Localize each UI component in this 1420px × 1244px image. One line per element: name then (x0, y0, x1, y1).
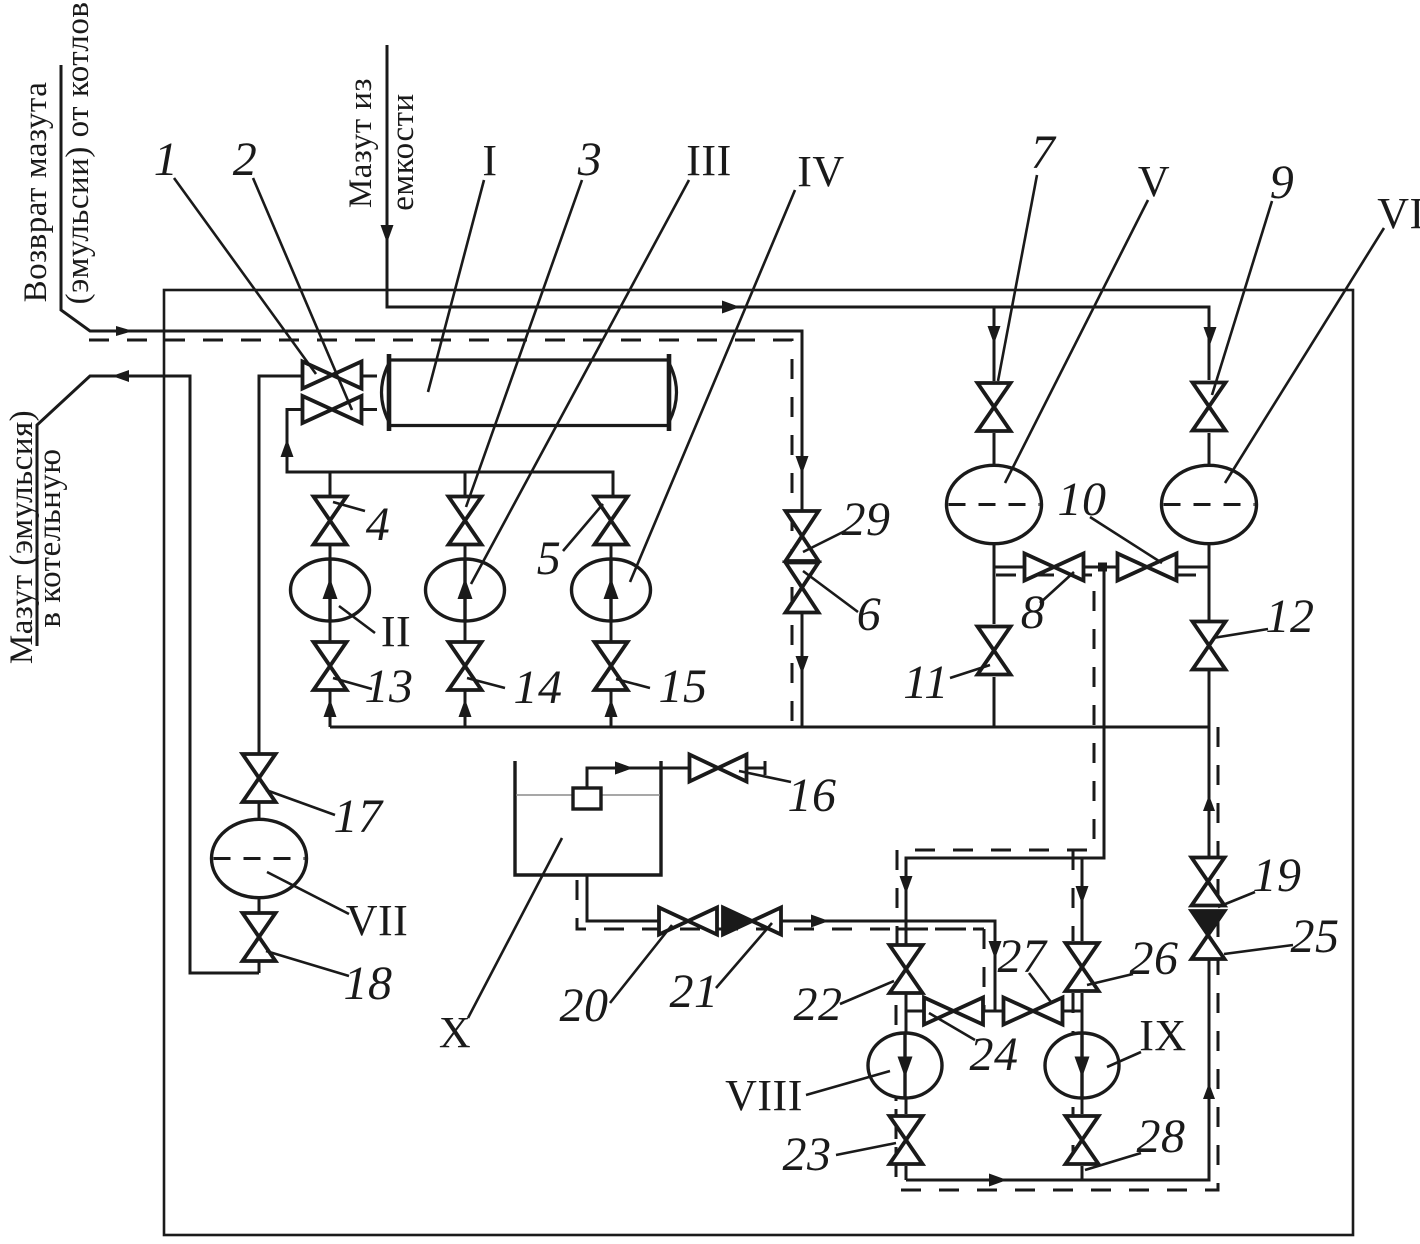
flow arrow outlet left (112, 370, 129, 382)
wire IX branch drop (1081, 858, 1084, 941)
svg-text:VII: VII (346, 896, 409, 945)
wire IX feed drop (906, 567, 1104, 945)
label pointer 16 (739, 771, 791, 782)
valve 12 (1193, 622, 1226, 670)
valve 26 (1066, 943, 1099, 991)
wire dashed tank VI leg (1176, 574, 1209, 577)
flow arrow 24-27 drop down (989, 941, 1002, 959)
svg-text:26: 26 (1130, 932, 1179, 985)
flow arrow bottom line right (989, 1174, 1007, 1187)
flow arrow IX feed down (1076, 886, 1089, 904)
pump IX (1045, 1033, 1119, 1098)
flow arrow branch2 up (459, 699, 472, 717)
flow arrow branch3 up (605, 699, 618, 717)
valve 16 (690, 755, 747, 782)
pump VIII (868, 1033, 942, 1098)
wire pump IX to valve 28 (1081, 1098, 1084, 1114)
valve 29 (786, 511, 819, 561)
valve 5 (595, 497, 628, 545)
valve 17 (243, 754, 276, 802)
svg-text:V: V (1138, 157, 1170, 206)
label pointer III (471, 180, 689, 584)
tank VI (1162, 465, 1257, 543)
label pointer 10 (1090, 517, 1162, 563)
svg-text:15: 15 (659, 660, 708, 713)
valve 2 (303, 396, 362, 423)
label pointer 14 (467, 678, 505, 688)
wire branch3 arrow stub (610, 700, 613, 727)
pump II-1 (291, 559, 370, 621)
valve 28 (1066, 1116, 1099, 1164)
pump II-3 (572, 559, 651, 621)
label pointer 17 (266, 790, 335, 815)
wire exchanger stub valve2 (361, 408, 390, 411)
svg-text:18: 18 (344, 957, 393, 1010)
wire outlet to boiler room (37, 376, 259, 973)
wire pump branch 3 (610, 497, 613, 700)
tank X liquid level (516, 794, 660, 796)
tank VII (212, 819, 307, 897)
wire dashed tank V leg (897, 575, 1094, 945)
label pointer 28 (1085, 1153, 1141, 1170)
wire lower manifold (330, 726, 1209, 729)
flow arrow return in right (116, 326, 133, 336)
valve 21 (723, 908, 781, 935)
wire valve 28 outlet (1081, 1166, 1084, 1180)
wire valves 8-10 crossover (994, 566, 1209, 569)
valve 19 (1192, 858, 1225, 906)
svg-text:Возврат мазута: Возврат мазута (18, 82, 54, 303)
wire valve 29-6 mid bar (785, 560, 820, 563)
flow arrow 29 drop down lower (796, 656, 809, 674)
label pointer VI (1225, 228, 1384, 483)
valve unnamed middle branch (449, 497, 482, 545)
wire pump branch 1 (329, 472, 332, 727)
wire return header from boilers (61, 65, 802, 727)
valve 11 (978, 627, 1011, 675)
svg-text:3: 3 (577, 133, 603, 186)
label pointer 29 (803, 531, 845, 552)
label pointer 13 (333, 678, 372, 689)
label pointer I (428, 180, 484, 392)
valve 4 (314, 497, 347, 545)
flow arrow float line right (redraw) (615, 762, 633, 775)
svg-text:I: I (482, 136, 497, 185)
wire tank X outlet line (587, 875, 660, 921)
svg-text:(эмульсии) от котлов: (эмульсии) от котлов (60, 2, 96, 305)
flow arrow feed to VI down (1204, 327, 1217, 345)
flow arrow 29 drop down upper (796, 456, 809, 474)
flow arrow riser up low (1203, 795, 1215, 811)
svg-text:7: 7 (1031, 126, 1057, 179)
svg-text:Мазут из: Мазут из (343, 78, 379, 208)
valve 23 (890, 1116, 923, 1164)
label pointer 22 (840, 981, 894, 1004)
svg-text:VIII: VIII (725, 1071, 803, 1120)
svg-text:IX: IX (1139, 1011, 1186, 1060)
flow arrow feed down (381, 225, 394, 243)
svg-text:24: 24 (970, 1028, 1019, 1081)
wire valve 23 outlet (905, 1166, 908, 1180)
label pointer V (1005, 200, 1148, 483)
tank X (515, 761, 661, 875)
label pointer X (468, 838, 562, 1018)
valve 6 (786, 563, 819, 613)
wire dashed IX jog (1072, 850, 1075, 941)
label pointer 2 (253, 178, 352, 410)
label pointer 8 (1040, 572, 1074, 603)
svg-text:21: 21 (670, 965, 719, 1018)
svg-text:11: 11 (903, 656, 948, 709)
flow arrow feed right (722, 301, 740, 314)
tank X float switch (573, 788, 601, 809)
svg-text:9: 9 (1270, 156, 1295, 209)
tank V (947, 465, 1042, 543)
label pointer 19 (1218, 892, 1255, 907)
svg-text:10: 10 (1058, 473, 1107, 526)
svg-text:VI: VI (1377, 189, 1420, 238)
wire dashed tank X outlet (577, 880, 984, 1011)
wire valve 20-21 outlet line (779, 921, 995, 1011)
label pointer 18 (266, 951, 349, 976)
wire tank V column lower (993, 677, 996, 727)
svg-text:27: 27 (998, 930, 1049, 983)
svg-text:X: X (439, 1008, 471, 1057)
flow arrow valve2 riser up (281, 439, 294, 457)
label pointer 7 (998, 175, 1037, 381)
wire pump branch 2 (464, 472, 467, 700)
valve 18 (243, 913, 276, 961)
label pointer 3 (466, 180, 582, 507)
flow arrow float line right (615, 762, 633, 775)
wire tank X float line (587, 768, 766, 788)
flow arrow riser up bottom (1203, 1083, 1215, 1099)
valve 7 (978, 383, 1011, 431)
wire dashed right riser (896, 727, 1218, 1190)
svg-text:1: 1 (154, 133, 179, 186)
svg-text:IV: IV (797, 147, 844, 196)
plant boundary border (164, 290, 1353, 1235)
svg-text:19: 19 (1253, 849, 1302, 902)
valve 10 (1118, 554, 1177, 581)
svg-text:14: 14 (514, 661, 563, 714)
svg-text:17: 17 (334, 790, 385, 843)
svg-text:2: 2 (233, 133, 258, 186)
valve 13 (314, 642, 347, 690)
label pointer II (339, 606, 375, 633)
wire pump VIII to valve 23 (905, 1098, 908, 1114)
flow arrow feed to V down (988, 326, 1001, 344)
wire valve1 line to pump VII branch (259, 376, 302, 973)
label pointer 21 (716, 923, 772, 988)
valve 9 (1193, 383, 1226, 431)
wire dashed return header (89, 340, 792, 727)
svg-text:22: 22 (794, 978, 843, 1031)
label pointer 6 (803, 571, 858, 612)
wire valve2 down leg and upper manifold (287, 410, 613, 498)
label pointer 23 (836, 1143, 896, 1155)
wire dashed IX suction (1072, 993, 1075, 1166)
svg-text:4: 4 (366, 498, 391, 551)
wire crossover 24-27 (906, 1010, 1082, 1013)
wire valve 22 to pump VIII (905, 993, 908, 1033)
svg-text:25: 25 (1291, 910, 1340, 963)
flow arrow branch1 up (324, 699, 337, 717)
label pointer 11 (950, 665, 990, 678)
valve 24 (924, 998, 983, 1025)
wire dashed VIII suction (895, 1033, 898, 1166)
label pointer VIII (806, 1071, 890, 1095)
label pointer 15 (616, 679, 650, 688)
wire tank V column (993, 433, 996, 624)
svg-text:III: III (686, 136, 731, 185)
label pointer 4 (333, 502, 365, 511)
svg-text:емкости: емкости (385, 93, 421, 210)
junction node valves 8-10 (1098, 563, 1107, 572)
label pointer 5 (563, 504, 603, 551)
svg-text:5: 5 (537, 532, 562, 585)
label pointer IX (1107, 1052, 1141, 1067)
svg-text:6: 6 (857, 588, 882, 641)
label pointer 1 (174, 178, 316, 374)
pump II-2 (426, 559, 505, 621)
wire exchanger stub valve1 (361, 375, 390, 378)
label pointer IV (630, 190, 795, 582)
wire fuel feed from tank (387, 45, 1209, 380)
valve 8 (1025, 554, 1084, 581)
valve 15 (595, 642, 628, 690)
valve 22 (890, 945, 923, 993)
heat exchanger I (377, 352, 683, 433)
svg-text:20: 20 (560, 979, 609, 1032)
svg-text:II: II (381, 607, 411, 656)
svg-text:13: 13 (365, 660, 414, 713)
svg-text:в котельную: в котельную (32, 448, 68, 627)
svg-text:23: 23 (783, 1128, 832, 1181)
wire tank VI column upper (1208, 433, 1211, 620)
valve 1 (303, 362, 362, 389)
svg-text:12: 12 (1266, 590, 1315, 643)
svg-text:29: 29 (842, 493, 891, 546)
label pointer 27 (1029, 973, 1051, 1002)
valve 20 (659, 908, 717, 935)
label pointer 9 (1212, 201, 1272, 395)
pipe end tick after valve 16 (764, 761, 767, 775)
wire tank VI column lower (1208, 671, 1211, 858)
label pointer 24 (929, 1013, 975, 1040)
valve 27 (1004, 998, 1063, 1025)
wire feed branch to valve 7 (993, 307, 996, 381)
label pointer 26 (1087, 974, 1133, 985)
wire right riser (906, 959, 1209, 1180)
flow arrow VIII feed down (900, 876, 913, 894)
svg-text:16: 16 (788, 769, 837, 822)
label pointer 12 (1213, 629, 1268, 638)
flow arrow after 21 right (811, 915, 829, 928)
label pointer 25 (1224, 945, 1293, 954)
label pointer 20 (610, 925, 672, 1003)
wire valve 26 to pump IX (1081, 993, 1084, 1033)
valve 25 (1192, 911, 1225, 959)
svg-text:8: 8 (1021, 586, 1046, 639)
tank X float pipe (redraw over fill) (587, 768, 766, 788)
label pointer VII (267, 872, 349, 914)
wire dashed box top (897, 928, 984, 931)
valve 14 (449, 642, 482, 690)
wire branch2 arrow stub (464, 700, 467, 727)
svg-text:28: 28 (1137, 1110, 1186, 1163)
